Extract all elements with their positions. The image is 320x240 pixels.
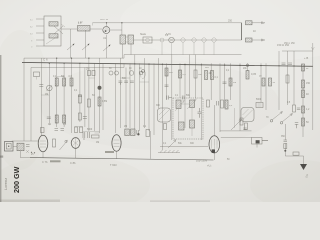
tube symbol V2 small <box>158 108 171 122</box>
arrow tick on right drop <box>311 47 314 50</box>
socket J2 <box>192 38 196 44</box>
resistor R16 <box>53 139 56 147</box>
wire v x99 <box>99 58 101 133</box>
label strip V4 <box>50 160 61 162</box>
IF coil L2 <box>176 100 181 109</box>
wire v x95 <box>94 63 96 131</box>
resistor R44 <box>78 95 81 103</box>
svg-text:150 Ω 150: 150 Ω 150 <box>284 42 295 45</box>
IF transformer T1 <box>120 35 134 58</box>
coil loop <box>141 71 146 79</box>
node dots <box>31 152 32 153</box>
svg-text:1M: 1M <box>45 94 48 96</box>
capacitor C24 <box>284 140 288 142</box>
svg-text:250: 250 <box>228 20 233 23</box>
mains switch block <box>34 72 40 80</box>
resistor R9 <box>221 100 224 108</box>
tie wire c <box>120 77 130 79</box>
wires in can <box>179 104 193 136</box>
resistor R1 <box>55 78 58 86</box>
wave switch S1 <box>54 24 65 34</box>
variable capacitor C3 <box>103 35 111 58</box>
IF coil L5 <box>190 120 195 128</box>
resistor R25 <box>87 99 90 107</box>
connector node <box>246 64 248 66</box>
wire v x180 <box>179 63 181 98</box>
resistor R20 <box>125 129 130 136</box>
wire v x261 <box>260 63 262 102</box>
wire v x266 <box>265 63 267 110</box>
resistor R7 <box>211 71 219 80</box>
wire v x158 <box>157 58 159 108</box>
svg-text:L 12: L 12 <box>78 22 83 24</box>
svg-text:C 6: C 6 <box>43 58 48 62</box>
svg-text:UCH 11: UCH 11 <box>100 19 109 21</box>
tube V1 mixer <box>103 27 110 41</box>
lower bus left <box>31 67 124 69</box>
bus step <box>123 55 125 59</box>
capacitor C14 <box>167 96 172 100</box>
wire box to coil <box>61 28 77 30</box>
socket J4 <box>212 38 216 44</box>
coil L1 <box>78 21 91 31</box>
capacitor C26 <box>83 117 87 119</box>
svg-text:105-130V: 105-130V <box>196 159 208 163</box>
wire right components <box>257 124 285 149</box>
wire OT right <box>221 137 268 140</box>
capacitor C32 <box>243 128 247 130</box>
resistor R31 <box>194 70 203 78</box>
tie wire d <box>89 77 95 79</box>
bus junction dots <box>49 58 295 67</box>
wire v x149 <box>149 63 151 159</box>
wire v x166 <box>166 63 168 100</box>
wire row right end <box>252 39 265 41</box>
wire v x190 <box>189 55 191 98</box>
capacitor C30 <box>288 63 292 65</box>
resistor R14 <box>302 118 310 126</box>
wire v x145 <box>144 58 146 128</box>
resistor R30 <box>179 70 187 78</box>
HT supply top line <box>93 22 242 24</box>
wire v x154 <box>153 63 155 135</box>
resistor R13 <box>302 106 310 113</box>
tube V5 drop <box>75 148 77 158</box>
resistor R26 <box>55 115 58 123</box>
IF can dashed box <box>173 98 203 139</box>
resistor R8 <box>246 71 257 80</box>
right top rail <box>282 50 313 52</box>
trimmer C7 <box>109 71 113 75</box>
output transformer box <box>252 138 263 145</box>
resistor R19 horizontal <box>92 135 100 138</box>
wire tube top to HT line <box>106 23 108 27</box>
wire v x41 <box>40 58 42 135</box>
capacitor C18 <box>297 108 301 110</box>
capacitor C25 <box>47 117 51 119</box>
resistor R21 <box>131 129 136 136</box>
tube V7 drop <box>213 153 215 160</box>
capacitor C33 <box>26 145 30 147</box>
node top junction <box>106 22 107 23</box>
resistor R4 pair <box>86 68 95 76</box>
resistor R35 <box>286 75 289 83</box>
wire v x85 <box>84 68 86 128</box>
capacitor C17 <box>217 101 219 106</box>
small box fuse <box>293 152 299 155</box>
wire v x214 <box>213 105 215 136</box>
wire v x71 <box>71 58 73 133</box>
wire drop to IF transformer <box>121 23 123 35</box>
trimmer C12 <box>129 71 133 75</box>
wire v x240 <box>239 63 241 108</box>
wire tube right <box>110 29 122 31</box>
socket J3 <box>202 38 206 44</box>
capacitor C21 <box>83 132 85 140</box>
node grid dot <box>98 86 102 90</box>
paper mottling <box>0 155 150 215</box>
wire v x303 <box>302 66 304 137</box>
pilot lamp La2 <box>166 33 174 43</box>
resistor R6 <box>205 71 212 80</box>
node junction <box>284 150 286 152</box>
svg-text:C 7b: C 7b <box>42 160 48 164</box>
capacitor C29 <box>282 63 286 65</box>
svg-text:0,5M: 0,5M <box>102 101 107 103</box>
wire top right end <box>252 22 265 24</box>
scale drive box <box>143 37 152 43</box>
capacitor C23 <box>137 130 139 135</box>
resistor R11 <box>302 80 311 88</box>
wire v x64 <box>63 63 65 127</box>
svg-text:1M: 1M <box>233 82 236 84</box>
tube V7 output <box>209 136 220 153</box>
svg-text:2M: 2M <box>86 68 89 71</box>
resistor R29 <box>165 68 174 76</box>
antenna terminal stubs <box>30 18 44 48</box>
dial lamp row wire <box>134 39 242 41</box>
wire v x287 <box>287 51 289 105</box>
resistor R5 <box>98 97 101 106</box>
wire v x130 <box>129 63 131 128</box>
wire to arrow <box>285 149 303 166</box>
tube V4 cathode drop <box>42 152 44 158</box>
capacitor C10 <box>124 81 128 83</box>
capacitor C31 <box>295 123 299 129</box>
capacitor C5 <box>78 95 82 97</box>
tie wire a <box>57 76 64 78</box>
wire v x195 <box>195 55 197 98</box>
tube V4 UCH <box>38 135 48 152</box>
IF coil L3 <box>190 100 195 108</box>
node black square <box>212 149 215 152</box>
socket drop wires <box>162 42 214 55</box>
antenna coupling box <box>44 16 61 46</box>
wire left frame bottom <box>12 140 38 142</box>
tie wire e <box>83 131 100 133</box>
capacitor C20 <box>61 129 65 131</box>
faint top annotations <box>78 19 295 45</box>
svg-text:+ B: + B <box>304 56 308 60</box>
label strip V6 <box>105 151 114 153</box>
capacitor C19 <box>55 129 59 131</box>
svg-text:5000: 5000 <box>87 129 93 131</box>
svg-text:T 6b3: T 6b3 <box>110 163 117 167</box>
wire v x140 <box>139 63 141 131</box>
wire v x211 <box>210 63 212 100</box>
wire v x103 <box>102 63 104 130</box>
ground hatch segment <box>158 150 180 153</box>
terminal blocks <box>17 143 24 151</box>
tie wire f <box>75 126 84 128</box>
resistor R23 <box>240 118 243 125</box>
switch contact S2b <box>282 113 292 122</box>
svg-text:200 GW: 200 GW <box>12 166 21 193</box>
wire v x115 <box>115 63 117 133</box>
small box comp <box>41 128 45 133</box>
arrow down mains <box>300 164 307 170</box>
wire y131 segment <box>220 108 252 131</box>
wire v x313 <box>312 63 314 130</box>
resistor R15 <box>293 105 296 112</box>
svg-text:1M: 1M <box>96 142 99 144</box>
resistor R37 <box>207 100 210 107</box>
wire v x135 <box>134 55 136 129</box>
resistor R2 <box>63 78 66 86</box>
wire v x201 <box>200 63 202 140</box>
resistor R27 <box>63 115 66 123</box>
tube V6 drop <box>116 151 118 159</box>
resistor R3 <box>70 78 73 86</box>
value labels scatter <box>31 67 291 161</box>
resistor R42 <box>246 38 253 42</box>
trimmer C13 <box>139 71 143 75</box>
svg-text:Skala: Skala <box>140 34 146 36</box>
tube symbol V3 small <box>241 108 254 122</box>
potentiometer P4 <box>168 140 176 148</box>
resistor R40 <box>164 124 167 130</box>
tube V6 EBF <box>112 135 121 151</box>
potentiometer P1 <box>47 85 53 91</box>
wire into V7 grid <box>160 146 208 148</box>
capacitor C15 <box>182 96 184 100</box>
tuning arrows in can <box>175 100 184 111</box>
wire left frame vertical B <box>30 68 32 142</box>
switch contact S2a <box>272 111 282 120</box>
capacitor C9 <box>119 81 123 85</box>
potentiometer P3 <box>60 140 68 150</box>
svg-text:+U₂: +U₂ <box>207 164 211 168</box>
trimmer C8 <box>115 71 119 75</box>
resistor R24 <box>284 144 287 149</box>
capacitor C11 <box>130 81 134 83</box>
wire right edge drop <box>312 43 314 63</box>
svg-text:5000: 5000 <box>256 99 262 101</box>
wire v x294 <box>293 51 295 105</box>
variable capacitor C1 <box>67 29 75 58</box>
capacitor C22 <box>88 132 90 138</box>
resistor R22 <box>146 130 150 137</box>
wire v x89 <box>88 58 90 131</box>
bottom rail wire <box>30 158 214 160</box>
resistor R17 <box>75 127 78 133</box>
wire v x230 <box>230 63 232 100</box>
wire v x225 <box>224 63 226 108</box>
node diamond <box>137 133 139 135</box>
resistor R33 <box>259 76 265 87</box>
potentiometer P2 diagonal <box>231 119 241 130</box>
variable capacitor C2 <box>82 30 90 58</box>
socket J1 <box>181 38 185 44</box>
grid cap wire <box>95 132 100 134</box>
wire speaker to rail <box>13 147 30 158</box>
resistor R10 box <box>256 103 263 108</box>
svg-text:0,05: 0,05 <box>251 72 257 76</box>
svg-text:150: 150 <box>306 82 311 85</box>
wire v x126 <box>125 68 127 129</box>
svg-text:Lorenz: Lorenz <box>3 178 8 190</box>
rectifier marks <box>26 150 29 153</box>
wire v x279 <box>278 51 280 110</box>
wire v x235 <box>234 108 236 128</box>
svg-text:C 8b: C 8b <box>70 161 76 165</box>
resistor R32 <box>229 78 236 86</box>
resistor R38 <box>225 100 233 109</box>
resistor R12 <box>302 90 310 98</box>
resistor R18 <box>80 127 83 133</box>
wire v x247 <box>247 63 249 71</box>
bus line upper right segment <box>124 54 242 56</box>
tie wire b <box>41 94 49 96</box>
resistor R41 <box>246 21 253 25</box>
scan left edge <box>0 55 1 202</box>
wire left frame vertical A <box>23 58 25 141</box>
wire v x57 <box>56 58 58 127</box>
wire v x220 <box>219 63 221 132</box>
bus join <box>123 63 125 67</box>
capacitor C27 <box>165 85 169 87</box>
capacitor C28 <box>223 82 227 84</box>
bus line upper left segment <box>24 57 124 59</box>
tie wire g <box>140 81 149 83</box>
resistor R39 <box>245 123 248 130</box>
speaker box <box>5 142 14 152</box>
pilot lamp La1 <box>160 38 164 42</box>
junction bar <box>241 23 243 40</box>
main HT bus <box>22 62 313 66</box>
wire v x162 <box>161 63 163 150</box>
wire v x120 <box>119 58 121 128</box>
wire v x80 <box>79 63 81 122</box>
wire v x185 <box>184 63 186 128</box>
tube V5 round <box>71 138 80 149</box>
IF coil L4 <box>179 122 185 130</box>
capacitor C16 in can <box>198 108 202 118</box>
wire v x172 <box>171 55 173 140</box>
resistor R34 <box>269 78 276 86</box>
title text Lorenz 200 GW <box>3 166 21 193</box>
wire coil to tube <box>90 28 102 30</box>
wire v x49 <box>48 63 50 125</box>
resistor R28 <box>78 113 81 120</box>
capacitor C4 <box>39 85 43 87</box>
resistor R36 <box>302 64 310 71</box>
svg-text:2M: 2M <box>124 126 127 128</box>
